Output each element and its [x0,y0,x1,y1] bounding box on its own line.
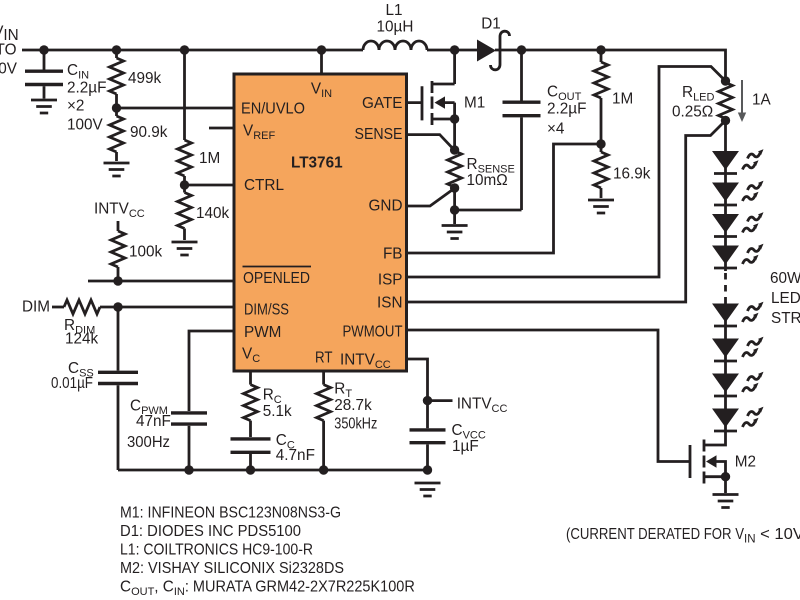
svg-text:M1: M1 [464,95,485,112]
capacitor CVCC [410,430,446,470]
resistor RC [244,371,258,437]
svg-text:100k: 100k [129,244,163,261]
svg-text:28.7k: 28.7k [334,397,372,414]
LED D2 [713,152,738,174]
svg-text:300Hz: 300Hz [127,434,170,451]
svg-text:100V: 100V [67,117,104,134]
wire diode to output corner, down to R_LED [495,50,726,81]
svg-text:1M: 1M [612,91,633,108]
svg-text:D1: DIODES INC PDS5100: D1: DIODES INC PDS5100 [120,523,301,540]
svg-text:CTRL: CTRL [244,177,284,194]
svg-text:INTVCC: INTVCC [457,396,508,416]
svg-text:140k: 140k [196,205,230,222]
capacitor COUT [503,50,541,210]
svg-text:GATE: GATE [362,95,403,112]
ground under CIN [31,100,57,113]
svg-text:OPENLED: OPENLED [243,270,310,287]
diode D1 [477,16,510,70]
IC U1 LT3761 body [234,74,407,371]
svg-text:SENSE: SENSE [355,126,403,143]
capacitor CC [231,439,271,470]
wire VREF stub [209,127,234,130]
svg-text:L1: L1 [385,2,402,19]
svg-text:GND: GND [369,198,403,215]
transistor M2 [690,440,726,484]
svg-text:0.25Ω: 0.25Ω [672,104,713,121]
wire PWMOUT to M2 gate [407,330,691,462]
light arrows [743,149,764,169]
wire INTVCC pin to CVCC [407,359,428,428]
ground under CVCC [415,483,441,496]
svg-text:×2: ×2 [67,98,84,115]
svg-text:×4: ×4 [547,120,565,137]
svg-text:1A: 1A [752,92,772,109]
wire CTRL [185,184,235,187]
resistor 140k [178,185,192,240]
resistor 100k [111,221,125,281]
svg-text:M2: M2 [735,454,756,471]
LED D9 [713,409,738,431]
svg-text:DIM: DIM [22,299,50,316]
capacitor CPWM [171,413,207,470]
wire 1M riser from rail [183,50,186,140]
svg-text:STRING: STRING [771,310,800,327]
svg-text:LED: LED [771,290,800,307]
svg-text:60W: 60W [770,270,800,287]
svg-text:INTVCC: INTVCC [94,201,145,221]
wire FB [407,144,602,253]
wire ground node to COUT bottom [455,209,522,212]
ground under 90.9k [104,163,130,176]
svg-text:PWMOUT: PWMOUT [343,324,403,341]
wire V_IN pin drop [320,50,323,74]
svg-text:DIM/SS: DIM/SS [244,302,289,319]
resistor RSENSE [448,151,462,187]
svg-text:90.9k: 90.9k [130,124,168,141]
wire ISN [407,121,726,303]
svg-text:4.7nF: 4.7nF [276,447,315,464]
wire RSENSE to ground node [453,188,456,224]
svg-text:16.9k: 16.9k [613,166,651,183]
svg-text:M2: VISHAY SILICONIX Si2328DS: M2: VISHAY SILICONIX Si2328DS [120,560,344,577]
wire SENSE [407,135,454,150]
resistor RDIM [52,300,234,314]
node INTVCC (right) [428,399,453,402]
resistor RLED [719,83,733,119]
wire top V_IN rail [22,49,363,52]
wire LED string dashed continuation [724,273,727,303]
wire LED string upper [724,121,727,272]
wire bottom rail [118,469,428,472]
svg-text:6V TO: 6V TO [0,42,17,59]
ground under 16.9k [588,200,614,213]
wire PWM to CPWM [189,331,234,411]
svg-text:PWM: PWM [244,324,281,341]
svg-text:EN/UVLO: EN/UVLO [241,101,305,118]
LED D5 [713,246,738,268]
svg-text:2.2µF: 2.2µF [547,100,586,117]
LED D4 [713,215,738,237]
wire LED string lower to M2 drain [704,303,726,445]
svg-text:10mΩ: 10mΩ [467,172,508,189]
svg-text:(CURRENT DERATED FOR VIN < 10V: (CURRENT DERATED FOR VIN < 10V) [566,526,800,546]
svg-text:RLED: RLED [682,84,715,104]
svg-text:350kHz: 350kHz [334,416,377,433]
resistor 1M (divider) [178,140,192,185]
LED D6 [713,304,738,326]
svg-text:FB: FB [383,246,403,263]
LED D7 [713,339,738,361]
wire M2 source to ground [724,477,727,493]
svg-text:10µH: 10µH [377,19,414,36]
ground under RSENSE [442,226,468,239]
ground under M2 [713,495,739,508]
ground under 140k [172,242,198,255]
resistor 499k [110,50,124,108]
LED D8 [713,374,738,396]
wire GND pin [407,189,454,206]
resistor 90.9k [110,108,124,161]
resistor 1M (output divider) [594,50,608,144]
resistor RT [317,371,331,470]
svg-text:499k: 499k [128,70,162,87]
svg-text:LT3761: LT3761 [291,155,343,172]
LED D3 [713,183,738,205]
wire OPENLED [88,280,234,283]
svg-text:M1: INFINEON BSC123N08NS3-G: M1: INFINEON BSC123N08NS3-G [120,505,341,522]
capacitor CSS [98,307,138,470]
svg-text:ISP: ISP [378,272,403,289]
svg-text:5.1k: 5.1k [263,403,292,420]
svg-text:0.01µF: 0.01µF [51,375,93,392]
svg-text:L1: COILTRONICS HC9-100-R: L1: COILTRONICS HC9-100-R [120,542,313,559]
svg-text:COUT, CIN: MURATA GRM42-2X7R22: COUT, CIN: MURATA GRM42-2X7R225K100R [120,579,415,599]
wire rail to diode [427,49,477,52]
resistor 16.9k [594,144,608,198]
current arrow 1A [738,80,746,122]
svg-text:1M: 1M [199,150,220,167]
svg-text:RT: RT [315,350,333,367]
inductor L1 [363,41,427,50]
svg-text:2.2µF: 2.2µF [67,80,106,97]
svg-text:47nF: 47nF [136,413,171,430]
svg-text:ISN: ISN [377,295,403,312]
wire ISP [407,67,726,278]
wire EN/UVLO [117,107,235,110]
svg-text:1µF: 1µF [452,438,479,455]
svg-text:D1: D1 [481,16,501,33]
transistor M1 [407,50,455,150]
capacitor CIN [25,50,63,99]
svg-text:100V: 100V [0,61,18,78]
svg-text:124k: 124k [65,331,99,348]
